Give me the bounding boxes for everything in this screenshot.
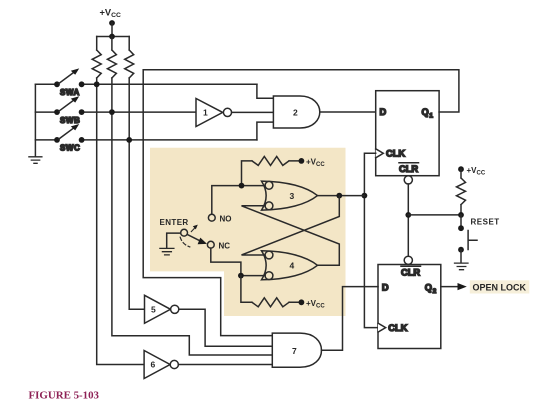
svg-text:SWA: SWA <box>60 88 80 97</box>
node CLK tap from gate 3 output <box>362 193 368 199</box>
wire Q2 output with arrow <box>441 286 461 288</box>
wire from +Vcc to resistor bus <box>97 23 130 37</box>
switch SWA <box>35 68 257 97</box>
svg-text:CLR: CLR <box>399 164 418 174</box>
svg-text:OPEN LOCK: OPEN LOCK <box>473 283 527 293</box>
svg-text:3: 3 <box>290 191 295 201</box>
+Vcc terminal (latch bottom) <box>299 299 326 310</box>
svg-text:FIGURE 5-103: FIGURE 5-103 <box>29 390 100 402</box>
ground (switch rail) <box>29 157 42 164</box>
svg-text:NO: NO <box>220 215 232 224</box>
svg-text:5: 5 <box>151 305 156 315</box>
ground (ENTER switch) <box>160 248 174 255</box>
inverter 1 <box>196 99 232 127</box>
svg-text:CLK: CLK <box>388 323 407 333</box>
AND gate 7 <box>272 333 321 367</box>
contact NC <box>207 241 230 250</box>
NAND gate 3 (negative-OR symbol) <box>262 181 318 210</box>
wire SWC signal vertical (R3 down to inverter 5) <box>129 78 144 309</box>
wire NC contact to gate 4 lower input <box>211 248 265 276</box>
label OPEN LOCK (highlighted) <box>470 280 530 293</box>
wire SWB signal vertical (R2 down to gate 7 input) <box>112 78 272 355</box>
arrow actuation indicator <box>191 227 195 231</box>
switch SWC <box>35 124 257 153</box>
wire CLK bus vertical <box>364 153 378 327</box>
node supply bus junction <box>109 34 115 40</box>
wire CLR bus between flip-flops <box>407 184 409 256</box>
inverter 6 <box>144 351 178 379</box>
svg-text:SWB: SWB <box>60 116 80 125</box>
resistor R1 (SWA pull-up) <box>92 37 101 79</box>
svg-text:SWC: SWC <box>60 144 80 153</box>
dashed travel arc <box>180 237 190 247</box>
svg-text:+VCC: +VCC <box>100 8 122 20</box>
resistor R3 (SWC pull-up) <box>125 37 134 79</box>
switch ENTER (common pole) <box>160 218 189 248</box>
svg-text:D: D <box>380 107 387 117</box>
resistor R2 (SWB pull-up) <box>107 37 116 79</box>
svg-text:7: 7 <box>292 346 297 356</box>
wire inverter 1 output to gate 2 <box>232 111 274 113</box>
svg-text:2: 2 <box>293 108 298 118</box>
resistor R6 (reset pull-up) <box>457 169 466 215</box>
wire SWA signal vertical (R1 down to inverter 6) <box>97 78 144 365</box>
highlight region (tan debounce latch area) <box>150 148 346 316</box>
svg-text:RESET: RESET <box>471 217 500 226</box>
node SWA/R1 junction <box>94 81 100 87</box>
wire reset line <box>408 214 461 216</box>
inverter 5 <box>145 295 179 323</box>
svg-text:+VCC: +VCC <box>467 166 486 177</box>
wire Q1 feedback loop to gate 7 input 1 <box>143 70 459 336</box>
node NC/R5 junction <box>238 273 244 279</box>
node CLR/reset junction <box>405 212 411 218</box>
wire NO contact to gate 3 top input <box>212 186 265 215</box>
+Vcc supply terminal (top) <box>100 8 122 26</box>
svg-text:6: 6 <box>151 360 156 370</box>
svg-text:1: 1 <box>203 108 208 118</box>
resistor R4 (latch pull-up, top) <box>242 156 302 185</box>
wire SWC row into gate 2 bottom input <box>257 122 274 140</box>
wire inverter 5 output to gate 7 <box>179 309 272 346</box>
NAND gate 4 (negative-OR symbol) <box>262 251 318 280</box>
svg-text:D: D <box>382 283 389 293</box>
svg-text:CLK: CLK <box>386 149 405 159</box>
wire SWA row into gate 2 top input <box>257 84 274 98</box>
node gate 3 output junction <box>336 193 342 199</box>
switch ENTER arm with arrowhead <box>187 234 200 241</box>
node reset resistor junction <box>458 212 464 218</box>
switch SWB <box>35 96 196 125</box>
wire cross-couple: gate 4 out to gate 3 lower input <box>242 206 340 265</box>
+Vcc terminal (latch top) <box>299 158 326 169</box>
D flip-flop U2 <box>378 256 441 348</box>
svg-text:ENTER: ENTER <box>160 218 189 227</box>
+Vcc terminal (reset pull-up) <box>458 166 486 177</box>
node R4/NO junction <box>239 183 245 189</box>
wire gate 3 output to CLK bus <box>318 195 365 197</box>
contact NO <box>208 214 231 223</box>
wire gate 7 output to D of U2 <box>322 287 379 351</box>
wire switch common rail <box>34 84 36 156</box>
node SWC/R3 junction <box>126 137 132 143</box>
wire inverter 6 output to gate 7 <box>178 364 272 366</box>
wire gate 2 output to D of U1 <box>320 111 376 113</box>
wire cross-couple: gate 3 out to gate 4 upper input <box>242 196 340 255</box>
AND gate 2 <box>273 96 319 128</box>
ground (reset) <box>455 263 469 270</box>
svg-text:4: 4 <box>290 261 295 271</box>
svg-text:CLR: CLR <box>401 268 420 278</box>
pushbutton RESET <box>458 215 477 262</box>
D flip-flop U1 <box>376 91 439 184</box>
node SWB/R2 junction <box>109 109 115 115</box>
svg-text:NC: NC <box>219 242 231 251</box>
resistor R5 (latch pull-up, bottom) <box>241 276 302 307</box>
